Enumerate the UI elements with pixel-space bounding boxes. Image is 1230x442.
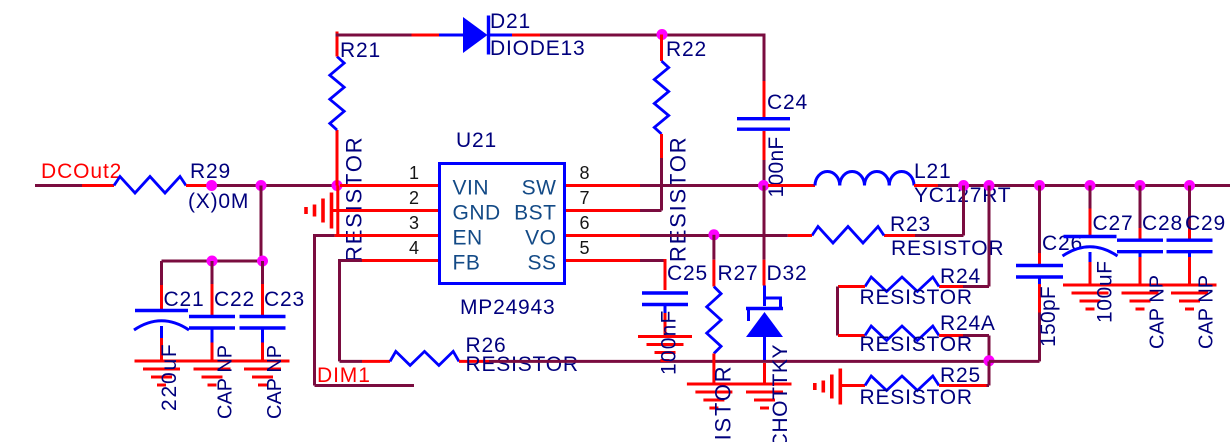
svg-text:RESISTOR: RESISTOR xyxy=(860,386,973,409)
svg-text:RESISTOR: RESISTOR xyxy=(666,136,691,262)
pin number 3 xyxy=(409,213,419,233)
diode D32 xyxy=(746,286,783,361)
svg-text:RESISTOR: RESISTOR xyxy=(860,333,973,356)
svg-text:L21: L21 xyxy=(914,160,951,183)
pin name GND xyxy=(453,202,501,225)
op-amp U21 part number MP24943 xyxy=(460,296,556,319)
svg-text:VO: VO xyxy=(525,227,556,250)
junction dot C23 top xyxy=(257,256,268,267)
capacitor C23 xyxy=(240,317,286,343)
capacitor C25 top pin xyxy=(664,259,667,290)
wire top R21 to D21 xyxy=(336,34,412,37)
resistor R26 value RESISTOR xyxy=(466,353,579,376)
capacitor C22 label xyxy=(214,288,255,311)
wire input to R21 xyxy=(208,184,338,187)
wire C21 rail xyxy=(162,260,263,263)
wire top D21 to C24 corner xyxy=(540,34,766,37)
svg-text:RESISTOR: RESISTOR xyxy=(891,237,1004,260)
resistor R22 bottom pin xyxy=(660,134,663,209)
op-amp U21 label xyxy=(456,129,497,152)
pin number 7 xyxy=(580,188,590,208)
resistor R24 label xyxy=(940,265,981,288)
resistor R24 right wire xyxy=(939,285,989,288)
wire EN down leg xyxy=(313,236,316,386)
capacitor C21 value 220uF xyxy=(158,342,181,411)
diode D32 value SCHOTTKY xyxy=(769,344,792,442)
wire out2 down to R24 xyxy=(988,186,991,287)
wire R24 to R24A loop xyxy=(836,287,839,336)
svg-text:C24: C24 xyxy=(767,91,808,114)
resistor R26 left pin xyxy=(362,360,390,363)
capacitor C25 xyxy=(642,293,688,313)
svg-text:R27: R27 xyxy=(718,262,759,285)
svg-text:150pF: 150pF xyxy=(1037,286,1060,347)
op-amp U21 body xyxy=(440,164,565,284)
svg-text:5: 5 xyxy=(580,238,590,258)
wire out1 down to R23 xyxy=(915,186,964,236)
resistor R24A xyxy=(865,326,939,341)
svg-text:MP24943: MP24943 xyxy=(460,296,556,319)
resistor R21 xyxy=(330,57,344,131)
junction dot FB node xyxy=(984,355,995,366)
ground C23 xyxy=(236,361,290,385)
svg-text:CAP NP: CAP NP xyxy=(1196,275,1218,349)
svg-text:C25: C25 xyxy=(667,262,708,285)
capacitor C22 top pin xyxy=(211,261,214,316)
ground C25 xyxy=(638,337,692,361)
svg-text:6: 6 xyxy=(580,213,590,233)
capacitor C23 label xyxy=(264,288,305,311)
capacitor C23 bottom pin xyxy=(261,343,264,362)
resistor R24 left pin xyxy=(838,285,865,288)
svg-text:R25: R25 xyxy=(940,364,981,387)
capacitor C26 top pin xyxy=(1038,186,1041,265)
svg-text:C23: C23 xyxy=(264,288,305,311)
resistor R25 label xyxy=(940,364,981,387)
svg-text:C27: C27 xyxy=(1093,212,1134,235)
ground R27 xyxy=(687,384,741,408)
junction dot input A xyxy=(206,180,217,191)
wire FB down leg xyxy=(338,261,341,362)
capacitor C23 value CAP NP xyxy=(264,345,286,419)
resistor R27 value RESISTOR xyxy=(711,365,736,442)
ground GND pin sideways xyxy=(306,193,332,229)
junction dot R22 top xyxy=(657,29,668,40)
resistor R27 xyxy=(707,287,721,354)
capacitor C21 label xyxy=(164,288,205,311)
svg-text:SS: SS xyxy=(527,252,556,275)
inductor L21 left pin xyxy=(768,184,815,187)
svg-text:R29: R29 xyxy=(190,160,231,183)
ground C21 xyxy=(135,361,189,385)
pin 1 wire xyxy=(340,184,438,187)
svg-text:220uF: 220uF xyxy=(158,342,181,411)
svg-text:SW: SW xyxy=(522,177,557,200)
wire FB net long xyxy=(489,360,989,363)
pin number 4 xyxy=(409,238,419,258)
node DCOut2 label xyxy=(41,160,122,183)
capacitor C25 label xyxy=(667,262,708,285)
diode D32 label xyxy=(767,262,808,285)
capacitor C23 top pin xyxy=(261,261,264,316)
resistor R23 label xyxy=(890,213,931,236)
capacitor C27 xyxy=(1063,237,1118,263)
junction dot out2 xyxy=(984,180,995,191)
svg-text:7: 7 xyxy=(580,188,590,208)
svg-text:D32: D32 xyxy=(767,262,808,285)
capacitor C27 label xyxy=(1093,212,1134,235)
ground R25 sideways xyxy=(815,369,841,405)
capacitor C22 value CAP NP xyxy=(215,345,237,419)
pin name VIN xyxy=(453,177,490,200)
pin number 5 xyxy=(580,238,590,258)
pin number 1 xyxy=(409,163,419,183)
resistor R21 bottom pin xyxy=(336,130,339,186)
pin 3 wire EN xyxy=(313,234,438,237)
capacitor C29 top pin xyxy=(1188,186,1191,240)
svg-text:R23: R23 xyxy=(890,213,931,236)
diode D21 anode pin xyxy=(412,34,440,37)
wire DIM1 horizontal xyxy=(315,384,415,387)
capacitor C26 value 150pF xyxy=(1037,286,1060,347)
svg-text:DCOut2: DCOut2 xyxy=(41,160,122,183)
svg-text:RESISTOR: RESISTOR xyxy=(466,353,579,376)
pin name SS xyxy=(527,252,556,275)
resistor R27 label xyxy=(718,262,759,285)
capacitor C24 bottom pin xyxy=(763,131,766,184)
resistor R25 value RESISTOR xyxy=(860,386,973,409)
capacitor C26 label xyxy=(1042,232,1083,255)
svg-text:U21: U21 xyxy=(456,129,497,152)
resistor R24A right wire xyxy=(939,336,989,362)
pin 4 wire FB xyxy=(338,259,438,262)
capacitor C24 xyxy=(737,119,790,130)
capacitor C26 xyxy=(1016,266,1063,285)
resistor R29 label xyxy=(188,160,249,213)
capacitor C28 top pin xyxy=(1139,186,1142,240)
pin name EN xyxy=(453,227,483,250)
capacitor C21 bottom pin xyxy=(160,338,163,361)
resistor R24 value RESISTOR xyxy=(860,286,973,309)
svg-text:DIM1: DIM1 xyxy=(317,364,371,387)
junction dot SW node xyxy=(758,180,769,191)
capacitor C29 value CAP NP xyxy=(1196,275,1218,349)
pin name FB xyxy=(453,252,481,275)
resistor R22 top pin xyxy=(660,35,663,62)
capacitor C27 top pin xyxy=(1089,186,1092,236)
resistor R27 top pin xyxy=(712,235,715,287)
svg-text:3: 3 xyxy=(409,213,419,233)
ground C28 xyxy=(1113,285,1167,309)
svg-text:C28: C28 xyxy=(1142,212,1183,235)
pin name BST xyxy=(514,202,556,225)
pin 5 wire SS xyxy=(566,259,665,262)
junction dot out5 xyxy=(1135,180,1146,191)
junction dot out4 xyxy=(1085,180,1096,191)
pin number 6 xyxy=(580,213,590,233)
svg-text:C29: C29 xyxy=(1185,212,1226,235)
resistor R23 xyxy=(812,227,884,244)
pin 6 wire VO xyxy=(566,234,788,237)
resistor R22 label xyxy=(666,38,707,61)
wire FB to R26 xyxy=(340,360,363,363)
resistor R21 top pin xyxy=(336,32,339,57)
capacitor C22 bottom pin xyxy=(211,343,214,362)
capacitor C25 bottom pin xyxy=(664,313,667,336)
capacitor C28 bottom pin xyxy=(1139,257,1142,285)
capacitor C21 xyxy=(134,311,189,339)
svg-text:2: 2 xyxy=(409,188,419,208)
resistor R29 left pin xyxy=(82,184,114,187)
diode D32 top pin xyxy=(763,186,766,286)
capacitor C24 top pin xyxy=(763,34,766,118)
capacitor C21 top pin xyxy=(160,261,163,309)
pin name VO xyxy=(525,227,556,250)
resistor R29 xyxy=(114,177,186,194)
svg-text:100nF: 100nF xyxy=(658,309,681,375)
diode D21 xyxy=(439,16,512,55)
inductor L21 right pin xyxy=(914,184,938,187)
pin name SW xyxy=(522,177,557,200)
svg-text:CAP NP: CAP NP xyxy=(264,345,286,419)
capacitor C24 value 100nF xyxy=(765,136,788,197)
inductor L21 xyxy=(815,171,914,185)
pin 7 wire BST xyxy=(566,208,662,211)
inductor L21 label xyxy=(914,160,1011,207)
pin 2 wire GND xyxy=(333,209,438,212)
resistor R23 right pin xyxy=(884,234,915,237)
resistor R23 value RESISTOR xyxy=(891,237,1004,260)
resistor R21 label xyxy=(340,39,381,62)
svg-text:CAP NP: CAP NP xyxy=(215,345,237,419)
capacitor C25 value 100nF xyxy=(658,309,681,375)
capacitor C29 xyxy=(1167,240,1213,257)
svg-text:D21: D21 xyxy=(490,10,531,33)
junction dot input B xyxy=(256,180,267,191)
svg-text:1: 1 xyxy=(409,163,419,183)
resistor R24A value RESISTOR xyxy=(860,333,973,356)
svg-text:GND: GND xyxy=(453,202,501,225)
diode D32 bottom pin xyxy=(763,363,766,384)
wire output rail xyxy=(938,184,1230,187)
capacitor C24 label xyxy=(767,91,808,114)
svg-text:8: 8 xyxy=(580,163,590,183)
pin 8 wire SW xyxy=(566,184,765,187)
junction dot C22 top xyxy=(207,256,218,267)
capacitor C28 label xyxy=(1142,212,1183,235)
wire EN tie to VIN xyxy=(336,186,339,236)
svg-text:100uF: 100uF xyxy=(1094,260,1117,323)
svg-text:RESISTOR: RESISTOR xyxy=(860,286,973,309)
node DIM1 label xyxy=(317,364,371,387)
resistor R21 value RESISTOR xyxy=(342,136,367,262)
svg-text:R21: R21 xyxy=(340,39,381,62)
resistor R23 left pin xyxy=(788,234,812,237)
pin number 8 xyxy=(580,163,590,183)
svg-text:C21: C21 xyxy=(164,288,205,311)
diode D21 cathode pin xyxy=(512,34,540,37)
svg-text:SCHOTTKY: SCHOTTKY xyxy=(769,344,792,442)
resistor R24A label xyxy=(940,312,996,335)
junction dot out1 xyxy=(958,180,969,191)
ground C27 xyxy=(1063,285,1117,309)
resistor R26 xyxy=(390,351,459,365)
diode D21 label xyxy=(490,10,585,60)
capacitor C28 value CAP NP xyxy=(1147,275,1169,349)
svg-text:RESISTOR: RESISTOR xyxy=(711,365,736,442)
ground D32 xyxy=(738,384,792,408)
resistor R29 right pin xyxy=(186,184,211,187)
svg-text:R22: R22 xyxy=(666,38,707,61)
junction dot VIN node xyxy=(332,180,343,191)
resistor R25 right wire xyxy=(939,361,989,385)
capacitor C27 bottom pin xyxy=(1089,262,1092,285)
wire C26 to FB node xyxy=(989,360,1040,363)
capacitor C26 bottom pin xyxy=(1038,284,1041,361)
capacitor C29 label xyxy=(1185,212,1226,235)
junction dot out6 xyxy=(1184,180,1195,191)
svg-text:R24: R24 xyxy=(940,265,981,288)
capacitor C27 value 100uF xyxy=(1094,260,1117,323)
svg-text:BST: BST xyxy=(514,202,556,225)
junction dot out3 xyxy=(1034,180,1045,191)
svg-text:DIODE13: DIODE13 xyxy=(490,37,585,60)
resistor R22 value RESISTOR xyxy=(666,136,691,262)
svg-text:R24A: R24A xyxy=(940,312,996,335)
resistor R27 bottom pin xyxy=(712,354,715,385)
resistor R25 xyxy=(865,376,939,391)
ground C22 xyxy=(185,361,239,385)
ground C29 xyxy=(1163,285,1217,309)
resistor R26 right pin xyxy=(459,360,489,363)
pin number 2 xyxy=(409,188,419,208)
wire down to C21 rail xyxy=(260,186,263,262)
capacitor C28 xyxy=(1117,240,1163,257)
resistor R24A left pin xyxy=(838,334,865,337)
resistor R22 xyxy=(654,61,668,134)
svg-text:(X)0M: (X)0M xyxy=(188,190,249,213)
capacitor C29 bottom pin xyxy=(1188,257,1191,285)
svg-text:VIN: VIN xyxy=(453,177,490,200)
capacitor C22 xyxy=(189,317,235,343)
svg-text:EN: EN xyxy=(453,227,483,250)
resistor R25 left pin xyxy=(842,384,865,387)
resistor R26 label xyxy=(466,334,507,357)
svg-text:RESISTOR: RESISTOR xyxy=(342,136,367,262)
svg-text:C22: C22 xyxy=(214,288,255,311)
svg-text:4: 4 xyxy=(409,238,419,258)
junction dot R27 top xyxy=(708,229,719,240)
wire DCOut2 stub xyxy=(35,184,82,187)
svg-text:100nF: 100nF xyxy=(765,136,788,197)
svg-text:FB: FB xyxy=(453,252,481,275)
resistor R24 xyxy=(865,277,939,292)
